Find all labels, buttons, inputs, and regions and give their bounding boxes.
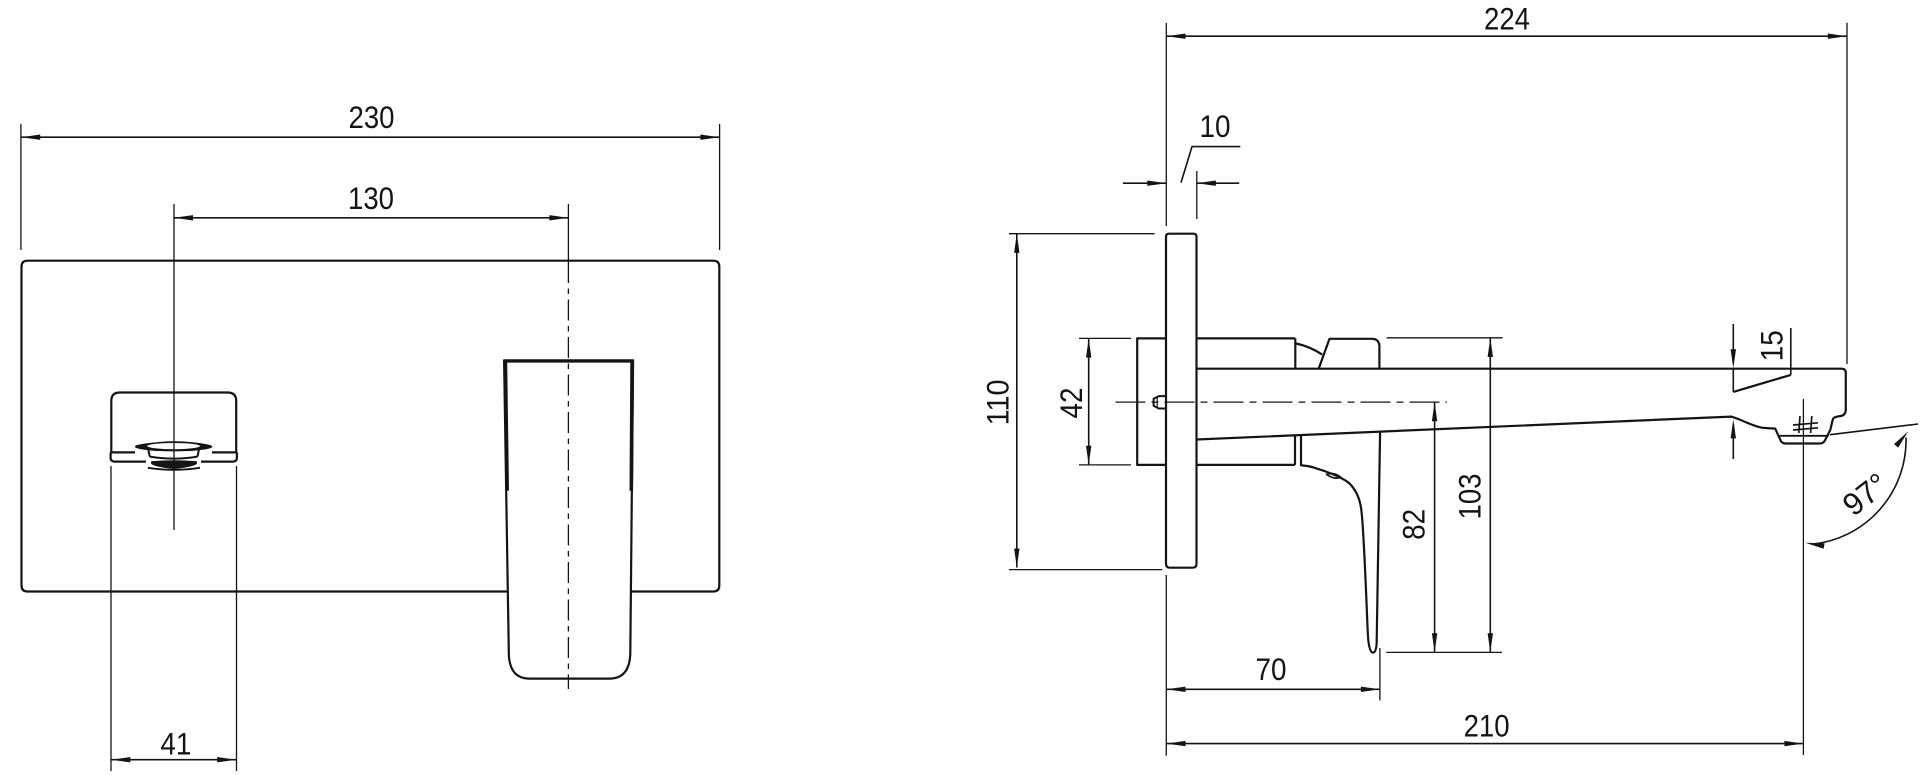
dimension 224 extension line left (wall face) <box>1165 23 1167 226</box>
dimension 103 <box>1489 338 1491 652</box>
handle lever upper arm <box>1319 339 1380 369</box>
dimension 82 <box>1434 402 1436 652</box>
dimension 10 left segment <box>1123 182 1166 184</box>
dimension 230 <box>21 136 719 138</box>
set screw on centerline <box>1154 396 1167 408</box>
dimension 42 <box>1088 339 1090 465</box>
set screw bevel face line <box>1156 397 1158 408</box>
dimension 15 upper arrow <box>1732 324 1734 364</box>
lever tip extension line for 70 <box>1379 648 1381 700</box>
dimension 224 extension line right (spout tip) <box>1846 23 1848 364</box>
wall face extension line bottom <box>1165 575 1167 756</box>
handle front left side thick <box>505 362 507 491</box>
svg-text:210: 210 <box>1464 708 1510 744</box>
handle lever neck left line <box>1294 435 1296 465</box>
angle 97 arc <box>1812 438 1907 545</box>
spout top edge and tip outline <box>1197 369 1846 418</box>
mixer body top edge right of wall <box>1197 337 1296 339</box>
dimension 110 <box>1016 234 1018 568</box>
handle front right side thick <box>629 362 633 491</box>
dimension 230 extension line left <box>20 124 22 250</box>
svg-text:130: 130 <box>348 180 394 216</box>
svg-text:41: 41 <box>160 726 191 762</box>
svg-text:15: 15 <box>1753 330 1789 361</box>
svg-text:82: 82 <box>1395 509 1431 540</box>
dimension 15 lower arrow <box>1732 424 1734 459</box>
dimension 41 extension line left <box>110 466 112 771</box>
mixer centerline side view <box>1116 401 1448 403</box>
svg-text:42: 42 <box>1053 388 1089 419</box>
handle front top edge thick <box>503 359 634 362</box>
dimension 10 extension line right <box>1196 171 1198 219</box>
spout tip chamfer line <box>1733 375 1791 392</box>
handle lever side outline <box>1301 432 1380 653</box>
svg-text:70: 70 <box>1256 651 1287 687</box>
handle lever neck right line <box>1300 435 1302 466</box>
aerator outlet dark ellipse <box>152 461 196 468</box>
svg-text:110: 110 <box>980 379 1016 425</box>
svg-text:103: 103 <box>1452 474 1488 520</box>
spout flange front <box>111 393 236 453</box>
handle lever beak detail <box>1327 473 1341 478</box>
dimension 110 extension line bottom <box>1009 569 1162 571</box>
aerator inner line <box>1779 435 1829 437</box>
dimension 224 <box>1167 35 1847 37</box>
dimension 70 <box>1167 688 1380 690</box>
aerator back rim thin arc <box>144 442 206 445</box>
spout flange lip <box>111 452 237 461</box>
dimension 10 leader <box>1181 147 1240 183</box>
dimension 103 extension line bottom (shared with 82) <box>1386 651 1502 653</box>
mixer body front vertical edge <box>1294 338 1296 368</box>
dimension 230 extension line right <box>719 124 721 250</box>
dimension 15 leader line <box>1790 328 1792 375</box>
wall plate side view <box>1166 234 1197 568</box>
dimension 130 <box>174 217 568 219</box>
svg-text:224: 224 <box>1484 0 1530 36</box>
dimension 41 extension line right <box>236 466 238 771</box>
mixer body fillet arc to lever arm <box>1296 344 1322 355</box>
dimension 15 line through spout <box>1732 369 1734 392</box>
aerator screen marks <box>1793 416 1818 433</box>
svg-text:230: 230 <box>349 99 395 135</box>
dimension 110 extension line top <box>1009 233 1155 235</box>
dimension 10 right segment <box>1197 182 1239 184</box>
dimension 210 <box>1167 743 1804 745</box>
aerator cup lower arc <box>150 457 198 459</box>
aerator cup sides <box>148 447 200 457</box>
mixer body bottom edge right of wall <box>1197 464 1296 466</box>
svg-text:10: 10 <box>1200 108 1231 144</box>
dimension 42 extension line bottom <box>1079 464 1131 466</box>
aerator bottom thin arc <box>148 468 200 470</box>
handle centerline front <box>567 204 569 262</box>
aerator axis extension line <box>1802 399 1804 755</box>
angle 97 ray <box>1830 424 1918 435</box>
handle front outline <box>504 361 633 679</box>
wall plate front view <box>22 261 720 592</box>
dimension 103 extension line top <box>1387 337 1503 339</box>
dimension 42 extension line top <box>1079 337 1131 339</box>
mixer body housing behind wall <box>1137 338 1166 465</box>
dimension 41 <box>111 759 236 761</box>
spout centerline front <box>173 204 175 530</box>
aerator ring dark annulus <box>135 442 212 451</box>
spout bottom slanted edge with aerator <box>1197 417 1834 444</box>
